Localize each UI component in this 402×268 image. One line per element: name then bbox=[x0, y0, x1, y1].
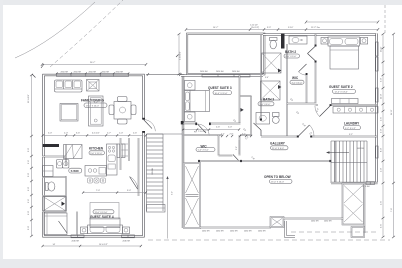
svg-text:KITCHEN: KITCHEN bbox=[89, 147, 104, 151]
bath3 toilet bbox=[272, 113, 279, 124]
bath2 label bbox=[284, 50, 300, 58]
svg-text:LAUNDRY: LAUNDRY bbox=[344, 121, 360, 125]
right building left wall bbox=[182, 74, 184, 228]
svg-text:3'-0": 3'-0" bbox=[381, 78, 383, 82]
svg-text:2050 SH: 2050 SH bbox=[232, 71, 240, 73]
dim line guest suite 4 y192 bbox=[82, 190, 147, 194]
svg-text:2'-2": 2'-2" bbox=[221, 134, 225, 136]
guest suite 3 bottom wall bbox=[182, 123, 241, 125]
window on stair bottom wall bbox=[366, 182, 375, 185]
svg-text:2030 SH: 2030 SH bbox=[216, 230, 224, 232]
svg-text:4'-10 1/2": 4'-10 1/2" bbox=[180, 51, 182, 60]
deck railing top left bbox=[187, 33, 266, 75]
svg-text:2'-8": 2'-8" bbox=[230, 134, 234, 136]
pantry wall x120 bbox=[120, 138, 122, 170]
hall dim tick cluster y136 bbox=[221, 135, 252, 137]
stair landing top edge bbox=[147, 133, 183, 135]
guest suite 4 nightstand left bbox=[81, 227, 88, 234]
guest suite 3 top wall with windows bbox=[181, 74, 263, 76]
kitchen island bbox=[85, 166, 107, 177]
wic left right wall bbox=[218, 135, 220, 156]
window left top wall A bbox=[57, 74, 129, 77]
bath3 tub with X bbox=[261, 81, 281, 100]
laundry label bbox=[344, 121, 361, 135]
svg-text:3'-0": 3'-0" bbox=[28, 211, 30, 215]
svg-text:2030 SH: 2030 SH bbox=[311, 221, 319, 223]
guest suite 2 bath door leaf bbox=[308, 46, 316, 61]
svg-text:19'-6 1/2": 19'-6 1/2" bbox=[28, 94, 30, 103]
porch rail window labels bbox=[202, 230, 266, 232]
guest suite 4 label bbox=[90, 210, 114, 219]
jog wall y96 bbox=[240, 95, 252, 97]
window bottom wall A bbox=[71, 235, 84, 238]
svg-text:3'-0": 3'-0" bbox=[28, 187, 30, 191]
svg-text:OPEN TO BELOW: OPEN TO BELOW bbox=[264, 175, 291, 179]
middle staircase landing bbox=[147, 205, 166, 213]
svg-text:S W/D: S W/D bbox=[71, 169, 79, 173]
kitchen label bbox=[89, 147, 105, 155]
hall wall x251 bbox=[250, 96, 252, 136]
couch family room bbox=[55, 80, 83, 92]
svg-text:3'-9": 3'-9" bbox=[267, 27, 271, 29]
guest suite 2 headboard pillows bbox=[328, 37, 360, 46]
linen closet bbox=[43, 166, 54, 177]
hall wall x138 bbox=[138, 138, 140, 196]
stair guide line with arrow bbox=[166, 176, 168, 239]
pantry wall x129 bbox=[128, 138, 130, 161]
wic right wall bbox=[306, 74, 308, 104]
svg-text:2050 SH: 2050 SH bbox=[200, 71, 208, 73]
right staircase center rail bbox=[331, 162, 367, 164]
interior wall left column horizontal y211 bbox=[43, 211, 67, 213]
washer dryer pair bbox=[57, 160, 69, 169]
dim ticks left building corner bbox=[32, 64, 44, 78]
wic south wall bbox=[287, 103, 316, 105]
svg-text:4'-6": 4'-6" bbox=[381, 201, 383, 205]
svg-text:2050 SH: 2050 SH bbox=[116, 71, 124, 73]
svg-text:2'-7": 2'-7" bbox=[107, 133, 111, 135]
svg-text:5'-0": 5'-0" bbox=[28, 226, 30, 230]
wic left label bbox=[196, 144, 215, 151]
svg-text:21'-0" X 6'-0": 21'-0" X 6'-0" bbox=[272, 148, 284, 150]
svg-text:9'-0" X 12'-0": 9'-0" X 12'-0" bbox=[90, 153, 102, 155]
guest suite 2 label bbox=[329, 85, 356, 94]
svg-text:5'-10": 5'-10" bbox=[288, 27, 294, 29]
svg-text:2050 SH: 2050 SH bbox=[102, 71, 110, 73]
dim line bottom left building bbox=[42, 244, 143, 247]
door to guest suite 4 bbox=[130, 177, 138, 190]
window labels left top wall bbox=[61, 71, 124, 73]
bath3 door leaf bbox=[254, 123, 262, 130]
closet door bbox=[233, 155, 239, 162]
svg-text:7'-10 1/2": 7'-10 1/2" bbox=[198, 131, 207, 133]
svg-text:F.P.: F.P. bbox=[194, 132, 198, 134]
svg-text:4'-0" X 6'-0": 4'-0" X 6'-0" bbox=[292, 82, 303, 84]
interior wall left column horizontal y156 bbox=[43, 156, 67, 158]
porch rail left segment bbox=[200, 227, 271, 229]
guest suite 3 nightstand upper bbox=[185, 81, 196, 91]
right building right wall bbox=[375, 34, 377, 184]
dimension line between buildings bbox=[146, 73, 182, 76]
right building top wall bbox=[263, 33, 378, 35]
svg-text:5'-0": 5'-0" bbox=[28, 148, 30, 152]
storage closet with X bbox=[43, 197, 66, 212]
stair direction arrow bbox=[326, 151, 349, 154]
property line curve solid bbox=[15, 2, 95, 58]
door jamb marks bbox=[142, 45, 331, 138]
dashed line lower level y240 bbox=[148, 239, 390, 241]
svg-text:4'-6 1/2": 4'-6 1/2" bbox=[92, 133, 100, 135]
svg-text:4'-6": 4'-6" bbox=[381, 117, 383, 121]
svg-text:17'-0" X 26'-0": 17'-0" X 26'-0" bbox=[86, 105, 99, 107]
porch rail right segment bbox=[284, 218, 344, 220]
window labels deck wall bbox=[200, 71, 240, 73]
guest suite 2 nightstand left bbox=[321, 38, 328, 45]
svg-text:1'-6": 1'-6" bbox=[28, 199, 30, 203]
bottom gray band bbox=[0, 259, 402, 268]
svg-text:11'-0" X 13'-0": 11'-0" X 13'-0" bbox=[95, 212, 108, 214]
svg-text:QUEST SUITE 3: QUEST SUITE 3 bbox=[208, 86, 232, 90]
svg-text:2030 SH: 2030 SH bbox=[324, 221, 332, 223]
guest suite 2 bed bbox=[330, 46, 359, 69]
porch post with X bbox=[271, 217, 284, 227]
fireplace bbox=[87, 80, 100, 92]
svg-text:3'-6": 3'-6" bbox=[381, 224, 383, 228]
dim line guest suite 2 top bbox=[305, 21, 379, 30]
svg-text:1'-10 1/2": 1'-10 1/2" bbox=[250, 24, 258, 26]
gallery north wall bbox=[261, 136, 377, 138]
guest suite 3 right wall bbox=[239, 75, 241, 124]
bath2 dark wall stub bbox=[281, 34, 285, 49]
svg-text:2050 SH: 2050 SH bbox=[61, 71, 69, 73]
closet bottom left bbox=[44, 213, 67, 235]
chimney structure left bbox=[184, 163, 200, 228]
guest suite 3 door bbox=[198, 124, 210, 136]
dim texts guest suite 3 doorway bbox=[198, 119, 246, 133]
laundry north wall bbox=[316, 104, 378, 106]
svg-text:2030 SH: 2030 SH bbox=[230, 230, 238, 232]
svg-text:GALLERY: GALLERY bbox=[270, 142, 286, 146]
svg-text:GUEST SUITE 2: GUEST SUITE 2 bbox=[329, 85, 353, 89]
interior wall left column horizontal y177 bbox=[43, 176, 67, 178]
svg-text:9'-2": 9'-2" bbox=[349, 134, 353, 136]
svg-text:5'-0": 5'-0" bbox=[228, 127, 232, 129]
wic south jog wall bbox=[219, 155, 233, 157]
svg-text:2'-6": 2'-6" bbox=[133, 133, 137, 135]
right staircase enclosure bbox=[331, 141, 367, 183]
bath3 label bbox=[258, 97, 274, 106]
dim texts hall diagonal cluster bbox=[216, 127, 255, 161]
svg-text:3'-1": 3'-1" bbox=[242, 134, 246, 136]
svg-text:2030 SH: 2030 SH bbox=[244, 230, 252, 232]
gallery south wall bbox=[198, 160, 331, 162]
guest suite 2 dresser bbox=[332, 99, 359, 104]
left gray band bbox=[0, 0, 3, 268]
svg-text:2030 SH: 2030 SH bbox=[72, 241, 80, 243]
shaft foot bbox=[352, 227, 365, 237]
dim line deck left vertical bbox=[178, 33, 182, 75]
family/dining room label bbox=[81, 99, 107, 108]
svg-text:11'-2" Dia: 11'-2" Dia bbox=[311, 27, 321, 29]
svg-text:13'-6": 13'-6" bbox=[381, 46, 383, 52]
svg-text:BATH 3: BATH 3 bbox=[263, 97, 274, 101]
dashed line lower level y232 bbox=[291, 231, 376, 233]
stair bottom wall bbox=[331, 182, 378, 184]
windows guest suite 3 top wall bbox=[202, 74, 250, 77]
rotated dim texts right side bbox=[381, 46, 383, 228]
island stools bbox=[88, 178, 106, 183]
middle staircase treads bbox=[147, 138, 164, 202]
porch rail right window labels bbox=[311, 221, 332, 223]
guest suite 3 bed bbox=[185, 91, 210, 112]
coffee table bbox=[60, 104, 78, 122]
svg-text:2030 SH: 2030 SH bbox=[258, 230, 266, 232]
property line curve dashed bbox=[50, 0, 123, 67]
guest suite 4 nightstand right bbox=[123, 227, 130, 234]
svg-text:11'-0": 11'-0" bbox=[381, 94, 383, 99]
svg-text:2050 SH: 2050 SH bbox=[362, 186, 370, 188]
b w/d label bbox=[69, 168, 82, 173]
pantry shelf lines bbox=[122, 144, 129, 156]
window dim ticks left top wall bbox=[56, 72, 130, 74]
svg-text:16R DN: 16R DN bbox=[152, 167, 154, 175]
window bottom wall B bbox=[122, 235, 135, 238]
svg-text:WIC: WIC bbox=[292, 76, 299, 80]
svg-text:8'-0" X 9'-0": 8'-0" X 9'-0" bbox=[286, 56, 297, 58]
guest suite 3 interior dim line bbox=[182, 128, 240, 130]
dining table bbox=[109, 97, 136, 125]
svg-text:BATH 2: BATH 2 bbox=[285, 50, 296, 54]
left building exterior walls bbox=[44, 75, 144, 236]
interior wall left column horizontal y196 bbox=[43, 195, 67, 197]
svg-text:5'-0" X 6'-0": 5'-0" X 6'-0" bbox=[198, 150, 209, 152]
hall dim texts y134 bbox=[221, 134, 246, 136]
dim tick middle stair arrow top bbox=[176, 55, 179, 58]
svg-text:14'-6 1/2": 14'-6 1/2" bbox=[99, 244, 108, 246]
bath2 vanity bbox=[289, 36, 307, 44]
svg-text:1'-6": 1'-6" bbox=[28, 160, 30, 164]
guest suite 4 bed bbox=[88, 218, 123, 234]
svg-text:(3'-0 1/2"): (3'-0 1/2") bbox=[251, 27, 260, 29]
dim line left side vertical bbox=[30, 74, 33, 237]
dim texts bath cluster diagonal bbox=[265, 77, 313, 136]
svg-text:2030 SH: 2030 SH bbox=[202, 230, 210, 232]
closet dim vline bbox=[236, 140, 239, 154]
elevator shaft with X bbox=[343, 184, 365, 225]
kitchen wall dark stub bbox=[43, 144, 60, 147]
guest suite 3 nightstand lower bbox=[185, 112, 196, 122]
bath column mid wall bbox=[286, 44, 288, 136]
right staircase treads bbox=[335, 141, 364, 183]
shaft right wall extension bbox=[364, 184, 366, 234]
svg-text:26'-7": 26'-7" bbox=[90, 62, 96, 64]
door at left building right wall bbox=[144, 120, 156, 132]
rotated dim texts left side bbox=[28, 94, 30, 230]
svg-text:2'-0": 2'-0" bbox=[381, 129, 383, 133]
dim line right side inner bbox=[382, 33, 385, 238]
svg-text:24'-0": 24'-0" bbox=[391, 109, 393, 115]
interior wall vertical x66 bbox=[65, 145, 67, 212]
kitchen counter right bbox=[107, 144, 118, 175]
guest suite 2 nightstand right bbox=[360, 38, 367, 45]
svg-text:5'-0": 5'-0" bbox=[28, 173, 30, 177]
svg-text:12'-0" X 13'-6": 12'-0" X 13'-6" bbox=[335, 92, 348, 94]
bath door arrows bbox=[241, 69, 282, 112]
svg-text:10'-0" X 11'-0": 10'-0" X 11'-0" bbox=[215, 93, 228, 95]
svg-text:2050 SH: 2050 SH bbox=[74, 71, 82, 73]
svg-text:8'-0": 8'-0" bbox=[381, 148, 383, 152]
dashed property line top right bbox=[384, 5, 386, 33]
dim line kitchen y137 bbox=[42, 133, 148, 137]
bath2 shower with X bbox=[262, 53, 282, 73]
gallery double doors bbox=[298, 125, 314, 137]
dim line left building top bbox=[41, 62, 147, 66]
svg-text:2030 SH: 2030 SH bbox=[123, 241, 131, 243]
svg-text:5'-2" X 9'-2": 5'-2" X 9'-2" bbox=[345, 128, 356, 130]
laundry door leaf bbox=[315, 106, 331, 117]
svg-text:2'-6": 2'-6" bbox=[216, 127, 220, 129]
dim line right building top bbox=[185, 24, 379, 31]
bath column left wall bbox=[260, 34, 262, 136]
guest suite 4 left wall bbox=[76, 212, 78, 235]
svg-text:4'-0": 4'-0" bbox=[381, 168, 383, 172]
top gray band bbox=[0, 0, 402, 5]
dim line right side outer bbox=[391, 33, 395, 238]
below-post wall L bbox=[285, 221, 296, 238]
powder toilet bbox=[46, 182, 55, 191]
svg-text:7'-6": 7'-6" bbox=[391, 208, 393, 212]
svg-text:14'-7": 14'-7" bbox=[213, 27, 219, 29]
svg-text:5'-0": 5'-0" bbox=[48, 133, 52, 135]
svg-text:3'-0": 3'-0" bbox=[172, 191, 174, 195]
middle staircase rails bbox=[147, 134, 164, 211]
svg-text:3'-6": 3'-6" bbox=[76, 133, 80, 135]
guest suite 2 left wall bbox=[315, 34, 317, 104]
small sink cabinet between rooms bbox=[89, 96, 104, 126]
wic hall north wall bbox=[182, 134, 252, 136]
svg-text:2050 SH: 2050 SH bbox=[216, 71, 224, 73]
svg-text:9'-0": 9'-0" bbox=[127, 190, 131, 192]
bath3 vanity bbox=[256, 113, 270, 125]
svg-text:2'-0": 2'-0" bbox=[64, 133, 68, 135]
svg-text:5'-2": 5'-2" bbox=[236, 146, 238, 150]
svg-text:7'-0": 7'-0" bbox=[96, 190, 100, 192]
wic right label bbox=[290, 76, 304, 85]
window labels bottom wall bbox=[72, 241, 131, 243]
door opening left building right wall bbox=[142, 120, 146, 132]
svg-text:3'-0": 3'-0" bbox=[265, 77, 269, 79]
wic right door bbox=[299, 64, 307, 75]
guest suite 4 rug bbox=[90, 203, 119, 220]
svg-text:16R DN: 16R DN bbox=[357, 148, 365, 150]
laundry washer dryer bbox=[333, 107, 378, 114]
guest suite 3 label bbox=[208, 86, 232, 95]
svg-text:5'-0" X 8'-0": 5'-0" X 8'-0" bbox=[260, 104, 271, 106]
bath2 toilet bbox=[270, 38, 278, 49]
svg-text:2050 SH: 2050 SH bbox=[89, 71, 97, 73]
svg-text:1'-0": 1'-0" bbox=[119, 133, 123, 135]
right wall window cells bbox=[375, 42, 378, 158]
gallery label bbox=[270, 142, 288, 150]
kitchen upper cabinets row bbox=[64, 145, 83, 159]
kitchen upper cabinets row b bbox=[117, 144, 125, 158]
closet wall x239 bbox=[239, 135, 241, 156]
svg-text:13'-0" X 16'-0": 13'-0" X 16'-0" bbox=[271, 182, 284, 184]
open to below label bbox=[264, 175, 292, 184]
